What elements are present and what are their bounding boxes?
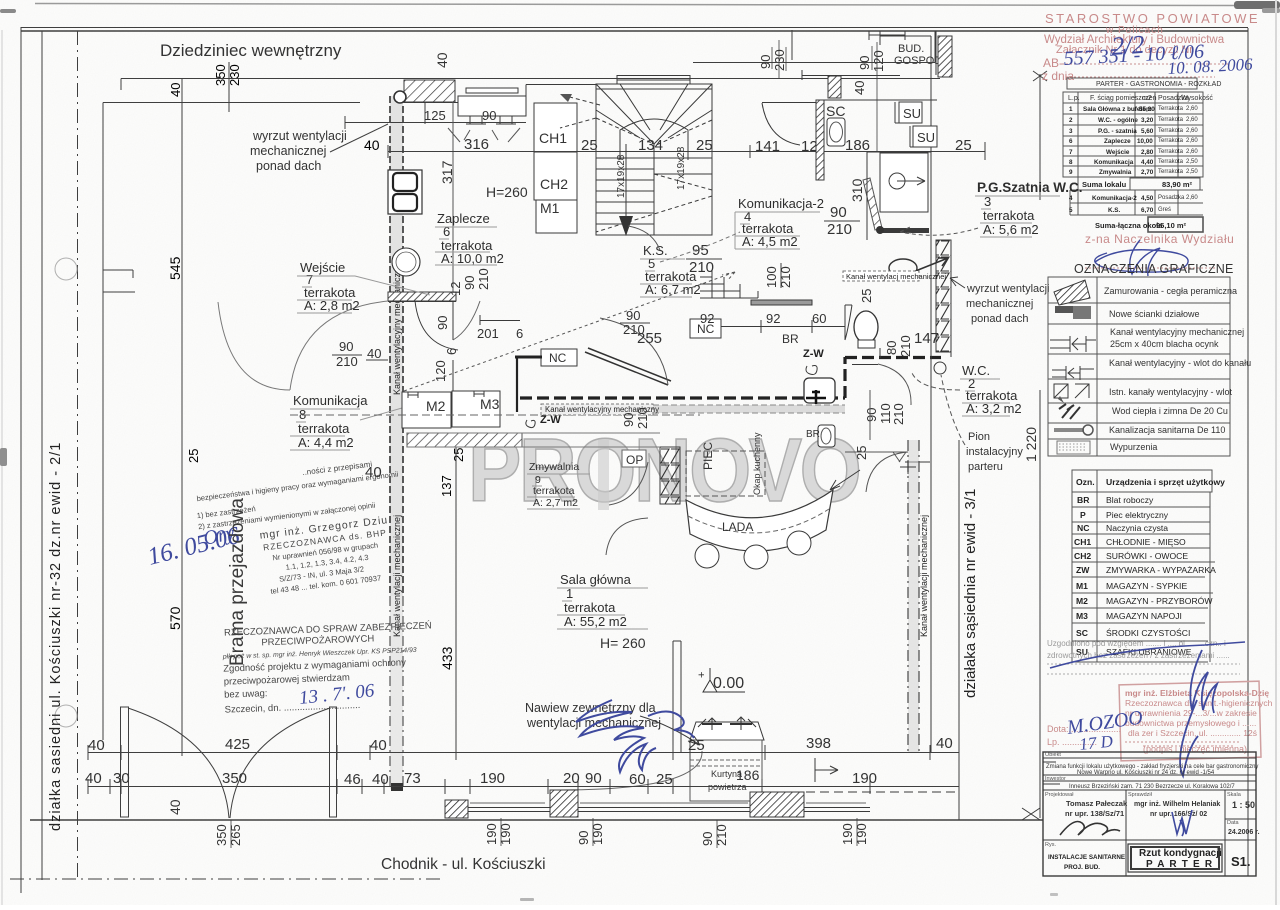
sheet left border line 1 (20, 27, 22, 893)
svg-text:210: 210 (623, 322, 645, 337)
NC box left (690, 319, 721, 338)
svg-text:A: 5,6 m2: A: 5,6 m2 (983, 222, 1039, 237)
red dotted lines stamp (1125, 742, 1240, 746)
bottom wall hatch pier 2 (550, 790, 578, 817)
big blue signature lower (1180, 650, 1217, 776)
svg-text:CH2: CH2 (1074, 551, 1091, 561)
svg-text:ŚRODKI CZYSTOŚCI: ŚRODKI CZYSTOŚCI (1106, 627, 1190, 638)
svg-text:STAROSTWO POWIATOWE: STAROSTWO POWIATOWE (1045, 11, 1260, 26)
svg-text:90: 90 (700, 832, 715, 846)
washbasin lower (818, 425, 835, 447)
svg-text:2,80: 2,80 (1141, 149, 1154, 156)
door arc wejscie outer (218, 301, 388, 390)
svg-text:działka sasiedni ul. Kościuszk: działka sasiedni ul. Kościuszki nr-32 dz… (48, 442, 64, 831)
wall y320 right of door (480, 315, 520, 325)
svg-text:Kanalizacja sanitarna De 110: Kanalizacja sanitarna De 110 (1109, 425, 1225, 435)
svg-text:90: 90 (621, 413, 636, 427)
svg-text:Zamurowania - cegła peramiczna: Zamurowania - cegła peramiczna (1104, 286, 1237, 296)
svg-text:z dnia: z dnia (1042, 69, 1074, 83)
title block content (1046, 764, 1258, 790)
stool 3 (787, 531, 811, 555)
K.S. label (643, 243, 701, 297)
svg-text:z-na Naczelnika Wydziału: z-na Naczelnika Wydziału (1085, 232, 1234, 246)
svg-text:3,20: 3,20 (1141, 117, 1154, 124)
svg-text:CH1: CH1 (539, 130, 567, 146)
big blue swoosh (1050, 642, 1245, 668)
svg-text:Wysokość: Wysokość (1181, 95, 1213, 102)
title block small labels (1045, 752, 1242, 848)
Zaplecze room label (437, 211, 504, 266)
svg-text:8: 8 (1069, 159, 1073, 166)
courtyard gate right arc (230, 708, 330, 818)
rotated 80/210 shelf dim (621, 407, 650, 429)
BUD GOSPOD walls (880, 31, 936, 152)
svg-text:20: 20 (563, 770, 580, 787)
dim pair 350/265 rotated (214, 823, 869, 846)
svg-text:210: 210 (898, 335, 913, 357)
svg-text:M1: M1 (540, 200, 560, 216)
signature projektant black (1060, 822, 1120, 836)
svg-text:5,60: 5,60 (1141, 128, 1154, 135)
right wall dash-dot band (908, 440, 919, 752)
tilted shelf near NC (585, 348, 671, 385)
M2 storage box (402, 392, 451, 428)
svg-text:Data: Data (1227, 820, 1240, 826)
leader line wyrzut to wall (330, 124, 388, 152)
Komunikacja label lines (290, 400, 430, 450)
right page edge smudge (1275, 0, 1277, 905)
legend table frame (1048, 277, 1230, 456)
hatched wall left y292 (388, 292, 456, 301)
gray duct band y405-413 (545, 405, 845, 413)
left wall dashed line inner (402, 96, 404, 596)
svg-text:425: 425 (225, 736, 250, 753)
svg-text:działaka sąsiednia nr ewid - 3: działaka sąsiednia nr ewid - 3/1 (962, 489, 979, 698)
svg-text:40: 40 (364, 137, 380, 153)
leader W.C. to room (912, 373, 960, 390)
svg-text:Suma-łączna okola: Suma-łączna okola (1095, 221, 1163, 230)
fraction line 90/210 (332, 355, 388, 360)
top-left corner hatch wall (404, 80, 455, 102)
svg-text:Terrakota: Terrakota (1158, 106, 1184, 112)
nawiew arrows (698, 717, 756, 730)
svg-text:Z-W: Z-W (803, 348, 824, 360)
svg-text:40: 40 (370, 737, 387, 754)
svg-text:budownictwa przemysłowego i ..: budownictwa przemysłowego i ...... (1125, 718, 1256, 728)
SC washbasin (827, 118, 845, 146)
corner scan smudge top-right (1234, 1, 1280, 9)
svg-text:MAGAZYN - PRZYBORÓW: MAGAZYN - PRZYBORÓW (1106, 596, 1213, 606)
stair winder fan lines (596, 84, 712, 144)
bottom shop wall double line (445, 808, 870, 812)
stair arrow up-left dashed (566, 96, 600, 105)
Zmywalnia label (529, 461, 579, 509)
main dim line y151 (388, 151, 985, 153)
stair winder arc (620, 119, 688, 160)
left wall shaft bottom cap (391, 783, 403, 791)
svg-text:0.00: 0.00 (713, 675, 744, 692)
courtyard top dim step (103, 79, 360, 741)
thick dashed duct vertical x845 (843, 357, 846, 398)
window sill marks (470, 802, 866, 804)
svg-text:40: 40 (367, 346, 381, 361)
svg-text:AB-: AB- (1043, 56, 1063, 70)
svg-text:CH2: CH2 (540, 176, 568, 192)
Dota Lp red (1047, 724, 1121, 747)
sym kanal went mech (1050, 336, 1096, 352)
svg-text:K.S.: K.S. (643, 243, 668, 258)
door arc komunikacja-2 (762, 103, 800, 145)
svg-text:Zmywalnia: Zmywalnia (1099, 169, 1132, 176)
svg-text:10,00: 10,00 (1137, 138, 1153, 145)
svg-text:25: 25 (451, 448, 466, 462)
svg-text:46: 46 (344, 771, 361, 788)
dim 90/120 rotated pair (758, 49, 886, 95)
svg-text:Terrakota: Terrakota (1158, 138, 1184, 144)
svg-text:P.G.Szatnia W.C.: P.G.Szatnia W.C. (977, 180, 1083, 195)
top-left corner scan dash (0, 9, 16, 13)
svg-text:40: 40 (372, 771, 389, 788)
svg-text:4,50: 4,50 (1141, 195, 1154, 202)
svg-text:Projektował: Projektował (1045, 792, 1074, 798)
left wall dashed line outer (389, 96, 391, 596)
leader from label to room dashed (900, 227, 978, 235)
svg-text:545: 545 (167, 256, 183, 280)
svg-text:Wejście: Wejście (1106, 149, 1130, 156)
interior vertical dim line x456 (455, 447, 457, 756)
svg-text:40: 40 (936, 735, 953, 752)
Zaplecze double sink unit (388, 170, 422, 214)
sheet top double border line (21, 27, 1248, 29)
dim leader arrows under nawiew (448, 128, 520, 142)
top right small rects (869, 31, 905, 40)
dim row2 labels (85, 770, 877, 788)
stair treads left flight (596, 158, 654, 224)
dark NNN band vertical x660 (660, 447, 680, 504)
WC door arc (878, 364, 911, 405)
svg-text:M2: M2 (1076, 596, 1088, 606)
svg-text:265: 265 (228, 824, 243, 846)
svg-text:3: 3 (1069, 128, 1073, 135)
svg-text:m2: m2 (1142, 95, 1152, 102)
svg-text:Urządzenia i sprzęt użytkowy: Urządzenia i sprzęt użytkowy (1106, 477, 1225, 487)
svg-text:ZMYWARKA - WYPAŻARKA: ZMYWARKA - WYPAŻARKA (1106, 565, 1216, 575)
svg-text:Rys.: Rys. (1045, 842, 1056, 848)
table texts (1068, 81, 1221, 102)
svg-text:2,60: 2,60 (1186, 195, 1198, 201)
svg-text:Z-W: Z-W (540, 414, 561, 426)
fire inspector stamp (221, 620, 435, 715)
svg-text:1: 1 (1069, 106, 1073, 113)
NC box center (541, 349, 577, 366)
sym nowe scianki dark band (1055, 306, 1091, 313)
uzgodniono faint note (1047, 639, 1230, 660)
right dim line x1040 (1033, 71, 1047, 818)
svg-text:Komunikacja: Komunikacja (293, 393, 368, 408)
bottom nawiew trapezoid (690, 722, 764, 740)
svg-text:Terrakota: Terrakota (1158, 117, 1184, 123)
svg-text:40: 40 (434, 52, 450, 68)
wall line x453 vertical (452, 102, 454, 295)
svg-text:wyrzut wentylacji: wyrzut wentylacji (252, 129, 347, 143)
dim 92 92 60 labels (700, 311, 826, 326)
kurtyna inner lines (690, 760, 762, 766)
Zaplecze label box lines (435, 227, 497, 265)
svg-text:134: 134 (638, 137, 663, 154)
svg-text:Blat roboczy: Blat roboczy (1106, 495, 1154, 505)
svg-text:ponad dach: ponad dach (971, 313, 1029, 325)
Wejscie label box (300, 260, 360, 313)
svg-text:2,60: 2,60 (1186, 138, 1198, 144)
bottom dim row2 line y786 (88, 779, 959, 794)
interior top wall y84 from nawiew to stairs (526, 85, 596, 117)
svg-text:17 D: 17 D (1078, 732, 1114, 754)
dim 90/210 + 40 near wejscie (336, 339, 381, 369)
svg-text:190: 190 (852, 770, 877, 787)
svg-text:Terrakota: Terrakota (1158, 169, 1184, 175)
svg-text:Kanał wentylacyjny mechaniczne: Kanał wentylacyjny mechanicznej (1110, 327, 1244, 337)
sym kanalizacja line+circle (1054, 428, 1084, 432)
dotted lines note (1047, 664, 1240, 674)
svg-text:1 : 50: 1 : 50 (1232, 800, 1255, 810)
svg-text:mgr inż. Wilhelm Helaniak: mgr inż. Wilhelm Helaniak (1134, 801, 1220, 808)
svg-text:210: 210 (476, 268, 491, 290)
right wall inner line (931, 240, 951, 455)
SU box 2 (913, 126, 937, 147)
SC top hatched wall (828, 76, 841, 98)
svg-text:Nowe Warpno ul. Kościuszki nr: Nowe Warpno ul. Kościuszki nr 24 dz. nr … (1077, 770, 1215, 776)
left long dim line x182 (181, 78, 183, 756)
wall lines around hatch band (407, 433, 660, 447)
svg-text:40: 40 (168, 83, 183, 97)
svg-text:190: 190 (840, 823, 855, 845)
sink cabinet WC (804, 378, 835, 403)
svg-text:6: 6 (1069, 138, 1073, 145)
column circle top-left (394, 91, 406, 103)
svg-text:P: P (1080, 510, 1086, 520)
suma lokalu row (1078, 177, 1203, 190)
svg-text:190: 190 (590, 823, 605, 845)
dim rotated 90 x443 (433, 268, 523, 382)
thick dashed duct y357 (845, 356, 941, 359)
svg-text:350: 350 (214, 824, 229, 846)
nawiew dashes top (702, 723, 752, 725)
right plot line x959 (958, 440, 960, 820)
svg-text:dla zer i Szczecin, ul. ......: dla zer i Szczecin, ul. ............. 12… (1128, 728, 1257, 738)
wyrzut arrow (903, 258, 948, 276)
svg-text:Naczynia czysta: Naczynia czysta (1106, 523, 1168, 533)
svg-text:Inneusz Brzeziński zam. 71 230: Inneusz Brzeziński zam. 71 230 Bezrzecze… (1069, 784, 1235, 790)
sheet left dashed boundary (77, 31, 79, 879)
courtyard top dimension line (121, 78, 940, 80)
svg-text:2,60: 2,60 (1186, 106, 1198, 112)
sym wod ciepla hammers (1059, 404, 1080, 419)
dashed line y792 right (806, 791, 959, 793)
sheet bottom dashed boundary (10, 878, 440, 880)
svg-text:L.p.: L.p. (1068, 95, 1080, 102)
BUD GOSPOD text (894, 43, 942, 67)
svg-text:25: 25 (955, 137, 972, 154)
svg-text:186: 186 (736, 767, 760, 783)
svg-text:Nowe ścianki działowe: Nowe ścianki działowe (1109, 309, 1200, 319)
svg-text:Kanał wentylacji mechanicznej: Kanał wentylacji mechanicznej (392, 515, 402, 637)
svg-text:Ozn.: Ozn. (1076, 477, 1095, 487)
svg-text:4: 4 (1069, 195, 1073, 202)
wyrzut wentylacji label top-left (250, 129, 347, 173)
kurtyna rect (690, 740, 762, 801)
door arc bottom (560, 751, 702, 790)
svg-text:90: 90 (626, 308, 640, 323)
svg-text:Kanał wentylacyjny - wlot do k: Kanał wentylacyjny - wlot do kanału (1109, 358, 1251, 368)
P.G. Szatnia W.C. label (977, 180, 1083, 237)
svg-text:317: 317 (439, 160, 455, 184)
svg-text:90: 90 (435, 316, 450, 330)
svg-text:90: 90 (830, 204, 847, 221)
svg-text:A: 10,0 m2: A: 10,0 m2 (441, 251, 504, 266)
signature ellipse scribble (1095, 240, 1188, 276)
svg-text:LADA: LADA (722, 520, 753, 534)
svg-text:190: 190 (498, 823, 513, 845)
right outer wall line (930, 455, 932, 752)
svg-text:125: 125 (424, 108, 446, 123)
Komunikacja-2 label box (735, 212, 820, 249)
top wall line y102 (404, 102, 458, 104)
svg-text:210: 210 (635, 407, 650, 429)
step lines under stairs (700, 270, 758, 298)
sym zamurowania hatched parallelogram (1054, 280, 1090, 305)
svg-text:Terrakota: Terrakota (1158, 128, 1184, 134)
svg-text:5: 5 (1069, 207, 1073, 214)
Komunikacja-2 label (738, 196, 824, 249)
courtyard gate left arc (128, 708, 229, 818)
kanal wentylacyjny mechaniczny text box center (541, 404, 653, 415)
svg-text:92: 92 (766, 311, 780, 326)
svg-text:terrakota: terrakota (983, 208, 1035, 223)
dim tick 350/230 (228, 62, 230, 112)
svg-text:12: 12 (801, 138, 818, 155)
svg-text:100: 100 (764, 266, 779, 288)
svg-text:NC: NC (549, 351, 567, 365)
svg-text:Kanał wentylacji mechanicznej: Kanał wentylacji mechanicznej (919, 515, 929, 637)
svg-text:PARTER - GASTRONOMIA - ROZKŁAD: PARTER - GASTRONOMIA - ROZKŁAD (1096, 81, 1221, 88)
svg-text:ZW: ZW (1076, 565, 1090, 575)
svg-text:Zaplecze: Zaplecze (1104, 138, 1131, 145)
dim ticks on y151 (388, 142, 985, 160)
svg-text:K.S.: K.S. (1108, 207, 1120, 214)
dim 90/210 komunikacja2 (827, 204, 852, 238)
wardrobe arrow circle (889, 173, 905, 189)
door arc KS (628, 226, 660, 250)
svg-text:73: 73 (404, 770, 421, 787)
Wejscie label lines (297, 276, 430, 313)
stool 1 (695, 544, 719, 568)
stair treads right flight (654, 158, 712, 174)
svg-text:350: 350 (222, 770, 247, 787)
red dotted sig line (1085, 267, 1215, 269)
svg-text:Wypurzenia: Wypurzenia (1110, 442, 1157, 452)
svg-text:570: 570 (167, 606, 183, 630)
leader to wyrzut (950, 277, 965, 288)
svg-text:6: 6 (444, 348, 459, 355)
svg-text:H= 260: H= 260 (600, 635, 646, 651)
svg-text:24.2006 r.: 24.2006 r. (1228, 829, 1260, 836)
svg-text:instalacyjny: instalacyjny (966, 446, 1023, 458)
right wall door arc top (845, 452, 908, 492)
dim 80/210 rotated (854, 335, 913, 460)
svg-text:A: 55,2 m2: A: 55,2 m2 (564, 614, 627, 629)
W.C. label lines (960, 379, 1010, 416)
komunikacja door arc (453, 301, 480, 340)
svg-text:1 220: 1 220 (1023, 427, 1039, 462)
faucet crosses (806, 390, 826, 404)
hatched wall band center y433 (407, 433, 522, 447)
svg-text:90: 90 (482, 108, 496, 123)
sym istn kanaly two squares (1054, 384, 1089, 398)
dim 90/210 fraction center (623, 308, 645, 337)
courtyard top-right line y63 (693, 31, 935, 63)
svg-text:17x19x28: 17x19x28 (616, 154, 627, 198)
leader pion (941, 375, 965, 445)
svg-text:2,50: 2,50 (1186, 159, 1198, 165)
partition x673 bottom (673, 641, 681, 752)
dim line y122 (345, 103, 526, 129)
svg-text:350: 350 (213, 64, 228, 86)
svg-text:2,60: 2,60 (1186, 117, 1198, 123)
svg-text:BR: BR (806, 429, 820, 440)
tick arrows row2 (815, 758, 838, 782)
dim 95/210 (689, 242, 714, 276)
svg-text:316: 316 (464, 136, 489, 153)
red stamp border (1119, 681, 1261, 761)
svg-text:Suma lokalu: Suma lokalu (1082, 180, 1127, 189)
bottom edge specks (520, 898, 534, 901)
svg-text:40: 40 (365, 464, 382, 481)
top scan edge line (35, 4, 1235, 6)
wall line under hatch (388, 301, 456, 303)
W.C. label right (962, 363, 1022, 416)
dark wall over NC (515, 356, 542, 359)
red dotted lines (1062, 64, 1230, 77)
svg-text:2: 2 (1069, 117, 1073, 124)
Nawiew zewnetrzny dla label bottom (525, 701, 661, 730)
svg-text:Rzeczoznawca ds. sanit.-higien: Rzeczoznawca ds. sanit.-higienicznych (1125, 698, 1273, 708)
rzut kondygnacji double box (1128, 844, 1222, 872)
svg-text:210: 210 (827, 221, 852, 238)
svg-text:Chodnik - ul. Kościuszki: Chodnik - ul. Kościuszki (381, 856, 546, 873)
svg-text:310: 310 (849, 178, 865, 202)
svg-text:P.G. - szatnia: P.G. - szatnia (1098, 128, 1137, 135)
big blue signature center (576, 700, 694, 772)
svg-text:PROJ. BUD.: PROJ. BUD. (1064, 864, 1100, 871)
svg-text:210: 210 (336, 354, 358, 369)
svg-text:Wod ciepła i zimna De 20 Cu: Wod ciepła i zimna De 20 Cu (1112, 406, 1228, 416)
sheet bottom main line (30, 819, 1043, 821)
suma laczna row (1148, 217, 1203, 232)
rows 4 5 (1070, 190, 1203, 215)
svg-text:terrakota: terrakota (564, 600, 616, 615)
svg-text:Zmywalnia: Zmywalnia (529, 461, 579, 473)
bottom row text (1048, 848, 1251, 871)
svg-text:W.C.: W.C. (962, 363, 990, 378)
pion circle (934, 362, 946, 374)
svg-text:210: 210 (778, 266, 793, 288)
handwritten date 16.05.06 (145, 522, 243, 571)
M3 door tick (474, 391, 484, 397)
svg-text:Kanał wentylacj mechanicznej: Kanał wentylacj mechanicznej (846, 272, 946, 281)
ramp bottom dark bar (880, 228, 929, 233)
svg-text:30: 30 (113, 770, 130, 787)
svg-text:SU: SU (917, 130, 935, 145)
